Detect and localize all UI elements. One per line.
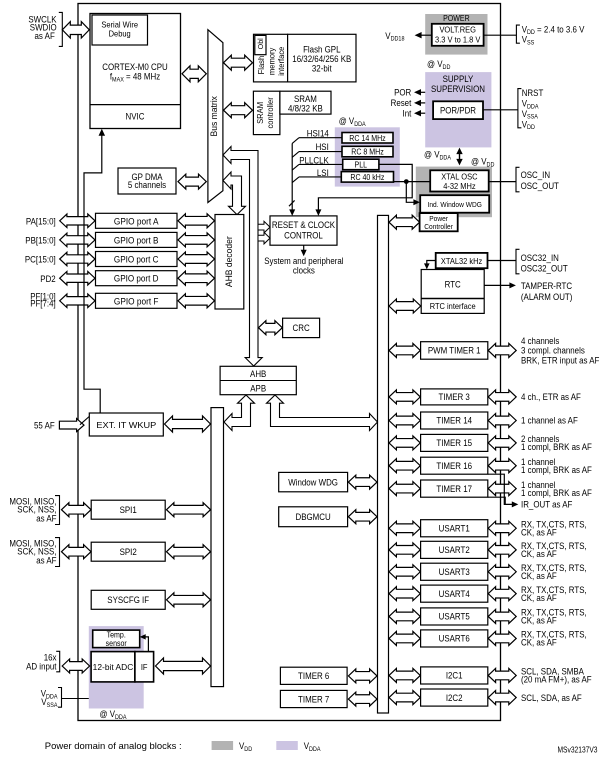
svg-text:RC 8 MHz: RC 8 MHz <box>351 148 384 157</box>
svg-text:controller: controller <box>266 97 275 129</box>
svg-text:APB: APB <box>250 383 266 393</box>
svg-text:GPIO port D: GPIO port D <box>114 274 159 284</box>
svg-text:SRAM: SRAM <box>256 102 265 124</box>
svg-text:RC 40 kHz: RC 40 kHz <box>350 173 384 182</box>
svg-text:55 AF: 55 AF <box>34 420 55 430</box>
svg-text:GPIO port C: GPIO port C <box>114 255 159 265</box>
svg-text:SCL, SDA, as AF: SCL, SDA, as AF <box>521 693 582 703</box>
svg-text:CK, as AF: CK, as AF <box>521 638 557 648</box>
svg-text:@ VDDA: @ VDDA <box>100 709 128 721</box>
svg-text:5 channels: 5 channels <box>128 180 167 190</box>
svg-text:USART1: USART1 <box>439 523 470 533</box>
svg-text:VDD = 2.4 to 3.6 V: VDD = 2.4 to 3.6 V <box>522 24 585 36</box>
svg-text:GPIO port A: GPIO port A <box>114 216 159 226</box>
svg-text:OSC32_OUT: OSC32_OUT <box>521 264 569 274</box>
svg-text:POR: POR <box>394 88 412 98</box>
svg-text:memory: memory <box>268 48 277 75</box>
svg-text:PA[15:0]: PA[15:0] <box>26 216 56 226</box>
svg-text:PB[15:0]: PB[15:0] <box>25 236 55 246</box>
svg-text:Flash: Flash <box>257 56 266 75</box>
svg-text:Reset: Reset <box>391 98 412 108</box>
svg-text:PF[7:4]: PF[7:4] <box>30 299 56 309</box>
svg-text:CK, as AF: CK, as AF <box>521 616 557 626</box>
svg-text:USART6: USART6 <box>439 634 470 644</box>
svg-text:interface: interface <box>277 46 286 76</box>
svg-text:GPIO port F: GPIO port F <box>114 296 159 306</box>
svg-text:(ALARM OUT): (ALARM OUT) <box>521 292 573 302</box>
svg-text:(20 mA FM+), as AF: (20 mA FM+), as AF <box>521 675 592 685</box>
svg-text:4-32 MHz: 4-32 MHz <box>443 181 475 191</box>
svg-text:POR/PDR: POR/PDR <box>440 105 477 115</box>
svg-text:Bus matrix: Bus matrix <box>209 96 219 137</box>
svg-text:HSI: HSI <box>316 142 329 152</box>
svg-text:I2C2: I2C2 <box>446 693 463 703</box>
svg-text:sensor: sensor <box>106 639 127 648</box>
svg-text:USART5: USART5 <box>439 612 470 622</box>
svg-text:RTC interface: RTC interface <box>430 301 476 311</box>
svg-text:Ind. Window WDG: Ind. Window WDG <box>428 200 482 209</box>
svg-text:USART4: USART4 <box>439 589 470 599</box>
svg-text:TIMER 17: TIMER 17 <box>436 484 472 494</box>
svg-text:@ VDD: @ VDD <box>471 157 495 169</box>
svg-text:PWM TIMER 1: PWM TIMER 1 <box>428 346 481 356</box>
svg-text:3.3 V to 1.8 V: 3.3 V to 1.8 V <box>435 35 481 45</box>
svg-text:32-bit: 32-bit <box>312 63 332 73</box>
svg-text:System and peripheral: System and peripheral <box>264 256 343 266</box>
svg-text:LSI: LSI <box>317 168 329 178</box>
svg-text:Obl: Obl <box>256 38 265 49</box>
svg-text:HSI14: HSI14 <box>307 129 329 139</box>
svg-text:Flash GPL: Flash GPL <box>303 44 340 54</box>
svg-text:OSC32_IN: OSC32_IN <box>521 253 559 263</box>
svg-text:SUPPLY: SUPPLY <box>443 74 474 84</box>
svg-text:TIMER 16: TIMER 16 <box>436 461 472 471</box>
svg-text:clocks: clocks <box>293 265 315 275</box>
svg-text:USART3: USART3 <box>439 567 470 577</box>
svg-text:TAMPER-RTC: TAMPER-RTC <box>521 281 573 291</box>
svg-text:12-bit ADC: 12-bit ADC <box>93 663 134 672</box>
svg-text:4 channels: 4 channels <box>521 336 560 346</box>
svg-text:XTAL32 kHz: XTAL32 kHz <box>441 256 482 266</box>
svg-text:USART2: USART2 <box>439 545 470 555</box>
svg-text:VOLT.REG: VOLT.REG <box>439 25 476 35</box>
svg-text:CK, as AF: CK, as AF <box>521 527 557 537</box>
svg-text:1 compl, BRK as AF: 1 compl, BRK as AF <box>521 488 592 498</box>
svg-text:PLLCLK: PLLCLK <box>299 156 329 166</box>
svg-text:1 channel as AF: 1 channel as AF <box>521 416 578 426</box>
svg-text:Window WDG: Window WDG <box>288 477 338 487</box>
svg-text:DBGMCU: DBGMCU <box>296 512 331 522</box>
svg-text:CORTEX-M0 CPU: CORTEX-M0 CPU <box>102 62 167 72</box>
svg-text:VSS: VSS <box>522 35 535 47</box>
svg-text:PD2: PD2 <box>40 274 55 284</box>
svg-text:MSv32137V3: MSv32137V3 <box>558 745 598 754</box>
svg-text:TIMER 6: TIMER 6 <box>298 671 329 681</box>
svg-text:TIMER 7: TIMER 7 <box>298 694 329 704</box>
svg-text:OSC_IN: OSC_IN <box>521 170 551 180</box>
svg-text:SPI2: SPI2 <box>120 547 137 557</box>
svg-text:CONTROL: CONTROL <box>284 230 323 240</box>
svg-text:Debug: Debug <box>109 29 131 39</box>
svg-text:1 compl, BRK as AF: 1 compl, BRK as AF <box>521 442 592 452</box>
svg-text:CK, as AF: CK, as AF <box>521 571 557 581</box>
svg-text:IR_OUT as AF: IR_OUT as AF <box>521 500 573 510</box>
svg-text:VDD: VDD <box>522 119 536 131</box>
svg-text:POWER: POWER <box>443 14 470 23</box>
svg-text:CK, as AF: CK, as AF <box>521 549 557 559</box>
svg-text:GPIO port B: GPIO port B <box>114 235 159 245</box>
svg-text:TIMER 14: TIMER 14 <box>436 416 472 426</box>
svg-text:Power domain of analog blocks: Power domain of analog blocks : <box>45 741 182 752</box>
svg-text:Int: Int <box>403 108 412 118</box>
svg-text:@ VDDA: @ VDDA <box>424 150 452 162</box>
svg-text:CK, as AF: CK, as AF <box>521 593 557 603</box>
svg-text:@ VDDA: @ VDDA <box>339 116 367 128</box>
svg-text:PLL: PLL <box>355 160 368 169</box>
svg-text:TIMER 3: TIMER 3 <box>439 392 470 402</box>
svg-text:EXT. IT WKUP: EXT. IT WKUP <box>96 420 156 430</box>
svg-text:IF: IF <box>141 662 148 672</box>
svg-text:RTC: RTC <box>445 280 462 290</box>
svg-text:VDD: VDD <box>239 741 253 753</box>
svg-text:RC 14 MHz: RC 14 MHz <box>349 134 385 143</box>
svg-text:VDDA: VDDA <box>304 741 322 753</box>
svg-text:NVIC: NVIC <box>126 112 145 122</box>
svg-text:as AF: as AF <box>36 514 57 524</box>
svg-text:1 compl, BRK as AF: 1 compl, BRK as AF <box>521 465 592 475</box>
svg-text:4 ch., ETR as AF: 4 ch., ETR as AF <box>521 392 581 402</box>
svg-text:AHB decoder: AHB decoder <box>224 236 234 287</box>
svg-text:as AF: as AF <box>36 556 57 566</box>
svg-text:SPI1: SPI1 <box>120 505 137 515</box>
svg-text:I2C1: I2C1 <box>446 671 463 681</box>
svg-text:4/8/32 KB: 4/8/32 KB <box>288 103 323 113</box>
svg-text:TIMER 15: TIMER 15 <box>436 438 472 448</box>
svg-text:OSC_OUT: OSC_OUT <box>521 181 560 191</box>
svg-text:VDD18: VDD18 <box>385 31 405 43</box>
svg-text:XTAL OSC: XTAL OSC <box>441 172 477 182</box>
svg-text:16/32/64/256 KB: 16/32/64/256 KB <box>292 54 351 64</box>
svg-text:CRC: CRC <box>293 323 311 333</box>
svg-text:3 compl. channels: 3 compl. channels <box>521 346 585 356</box>
svg-text:BRK, ETR input as AF: BRK, ETR input as AF <box>521 355 600 365</box>
svg-text:SUPERVISION: SUPERVISION <box>431 84 485 94</box>
svg-text:Controller: Controller <box>424 222 453 231</box>
svg-text:RESET & CLOCK: RESET & CLOCK <box>272 220 335 230</box>
svg-text:AD input: AD input <box>26 661 57 671</box>
svg-text:SYSCFG IF: SYSCFG IF <box>107 595 149 605</box>
svg-text:AHB: AHB <box>250 369 266 379</box>
svg-text:PC[15:0]: PC[15:0] <box>25 255 56 265</box>
svg-text:as AF: as AF <box>35 31 56 41</box>
svg-text:NRST: NRST <box>522 88 544 98</box>
svg-text:@ VDD: @ VDD <box>427 59 451 71</box>
